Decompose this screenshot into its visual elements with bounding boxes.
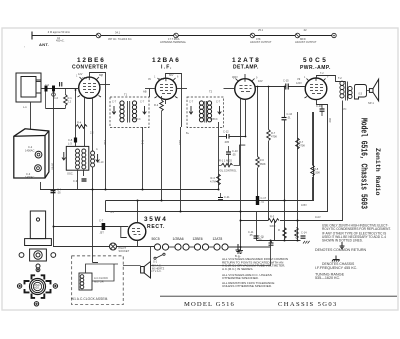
filament circles 50C5: [154, 244, 160, 250]
svg-text:PWR.-AMP.: PWR.-AMP.: [300, 65, 331, 71]
svg-text:MODEL G516: MODEL G516: [184, 301, 235, 308]
wire loop to converter grid: [41, 88, 79, 90]
buzzer wire: [123, 241, 271, 266]
resistor R6: [256, 157, 260, 168]
bus line 2: [106, 112, 314, 201]
svg-text:10V: 10V: [258, 79, 263, 83]
wire tube pins down: [84, 98, 86, 147]
svg-text:B+3: B+3: [178, 140, 182, 145]
wire from interlock down: [53, 92, 55, 247]
svg-text:.02: .02: [261, 199, 265, 203]
svg-text:C-10: C-10: [98, 161, 104, 164]
power interlock box C2/C3: [14, 129, 49, 178]
svg-text:ADJUST OUTPUT: ADJUST OUTPUT: [295, 40, 317, 44]
capacitor C21 on bus: [218, 193, 223, 200]
svg-text:C-21: C-21: [224, 195, 230, 199]
tube V1 12BE6 converter: [79, 76, 100, 98]
svg-text:C-15: C-15: [283, 79, 289, 83]
svg-text:DENOTES COMMON RETURN: DENOTES COMMON RETURN: [315, 248, 367, 252]
svg-text:C-T: C-T: [112, 101, 117, 104]
wire x142.6: [142, 127, 144, 190]
svg-text:C-2: C-2: [28, 145, 33, 149]
svg-text:470K: 470K: [299, 144, 305, 148]
capacitor C19: [269, 241, 274, 246]
svg-text:0.5: 0.5: [359, 92, 363, 96]
svg-text:80V: 80V: [169, 74, 174, 77]
svg-text:C-T: C-T: [140, 101, 145, 104]
svg-text:50C5: 50C5: [152, 237, 160, 241]
filter resistors: [283, 228, 287, 239]
svg-text:455KC: 455KC: [210, 118, 218, 121]
svg-text:.05: .05: [249, 233, 253, 237]
svg-text:.05: .05: [232, 152, 236, 156]
filament circles 12BE6: [194, 244, 200, 250]
svg-text:L-3: L-3: [68, 142, 72, 146]
svg-text:12AT8: 12AT8: [232, 57, 260, 64]
svg-text:150K: 150K: [314, 171, 320, 175]
B- common return symbol: [236, 244, 241, 253]
wire 50C5 plate to output transformer: [317, 76, 346, 105]
capacitor C4: [51, 191, 56, 193]
alignment point circle 1: [96, 33, 101, 38]
wire R8 vertical: [297, 112, 299, 241]
chassis symbol legend: [332, 256, 340, 262]
resistor R5: [267, 130, 271, 141]
capacitor C5a trimmer: [60, 82, 62, 87]
svg-text:R-1: R-1: [68, 96, 73, 100]
filter node wires: [257, 212, 275, 241]
svg-text:C-6: C-6: [54, 97, 59, 100]
alignment point circle 2: [174, 33, 179, 38]
resistor R4: [76, 125, 87, 129]
resistor R4b: [217, 174, 221, 185]
svg-text:35W4: 35W4: [144, 216, 167, 223]
svg-text:C-5: C-5: [45, 84, 50, 87]
svg-text:B+: B+: [186, 132, 190, 135]
svg-text:2.2: 2.2: [90, 131, 94, 135]
wire 35W4 plate to bus: [137, 201, 139, 223]
loop antenna L1: [16, 73, 41, 102]
filament string wire: [53, 246, 110, 248]
svg-text:34.1: 34.1: [115, 31, 121, 35]
resistor R7 470K: [296, 138, 300, 149]
svg-text:ANTENNA TERMINAL: ANTENNA TERMINAL: [160, 40, 187, 44]
clock dashed box: [72, 256, 124, 305]
svg-text:SP-1: SP-1: [368, 101, 374, 105]
svg-text:I.F.FREQUENCY 455 KC.: I.F.FREQUENCY 455 KC.: [315, 266, 357, 270]
svg-text:120V: 120V: [296, 82, 302, 85]
tube pin stubs 12BE6: [78, 77, 326, 98]
svg-text:ANT.: ANT.: [39, 42, 49, 47]
alignment point circle 4: [295, 33, 300, 38]
tube V3 12AT8 det-amp: [235, 79, 263, 100]
switch S1: [156, 255, 163, 259]
wire T2 to 12AT8: [224, 88, 235, 90]
svg-text:AB: AB: [143, 90, 147, 94]
svg-text:C-13: C-13: [232, 149, 238, 153]
alignment point circle 3: [250, 33, 255, 38]
svg-text:1400AC.: 1400AC.: [25, 175, 35, 179]
wire x161.4: [161, 120, 163, 201]
clock motor: [79, 273, 92, 290]
bus line 1: [95, 189, 219, 191]
filament circles 12AT8: [214, 244, 220, 250]
bottom rule: [160, 295, 397, 297]
line end terminal: [332, 33, 336, 37]
svg-text:CHASSIS 5G03: CHASSIS 5G03: [278, 301, 338, 308]
oscillator coil L3: [62, 146, 89, 170]
socket C-2: [35, 151, 42, 158]
svg-text:R-1 1 MEG: R-1 1 MEG: [219, 159, 232, 163]
svg-text:ROLYTIC CONDENSERS FOR REPLACE: ROLYTIC CONDENSERS FOR REPLACEMENT.: [322, 227, 391, 231]
svg-text:R-7: R-7: [299, 140, 304, 144]
svg-text:.01: .01: [287, 115, 291, 119]
svg-text:C-8: C-8: [68, 138, 73, 142]
resistor is drawn below: [312, 112, 314, 201]
svg-text:457 4C. 7CuFF4 KC.: 457 4C. 7CuFF4 KC.: [108, 37, 132, 41]
svg-text:ADJUST OUTPUT: ADJUST OUTPUT: [250, 40, 272, 44]
svg-text:R-4: R-4: [77, 121, 82, 125]
tube socket bottom view: [17, 268, 57, 306]
vertical wires from IF area down to buses: [143, 120, 181, 212]
wire 50C5 cathode: [317, 100, 328, 105]
antenna terminal bar: [32, 32, 334, 40]
svg-text:R: R: [278, 228, 280, 232]
svg-text:SOCKET: SOCKET: [119, 249, 130, 253]
svg-text:A.C.CLOCK: A.C.CLOCK: [94, 276, 108, 280]
heater bracket: [121, 227, 127, 238]
capacitor C16: [282, 118, 287, 120]
svg-text:S-1: S-1: [110, 211, 115, 214]
svg-text:Zenith Radio: Zenith Radio: [374, 148, 381, 196]
svg-text:DET.AMP.: DET.AMP.: [233, 65, 259, 71]
svg-text:OSC.: OSC.: [67, 172, 74, 176]
svg-text:RECT.: RECT.: [147, 224, 165, 230]
svg-text:.005: .005: [224, 140, 230, 144]
IF transformer T2: [187, 90, 224, 128]
svg-text:SRV: SRV: [82, 76, 88, 80]
coupling capacitor C15 to 50C5 grid: [286, 84, 288, 90]
middle notes: [222, 257, 288, 288]
common return symbol legend: [340, 242, 345, 249]
wire long vertical x105: [105, 97, 107, 190]
svg-text:112V: 112V: [315, 216, 321, 219]
resistor R2 cathode: [160, 100, 164, 111]
svg-text:S-1: S-1: [153, 260, 158, 264]
svg-text:C-17: C-17: [261, 196, 267, 200]
capacitor C13: [226, 146, 231, 162]
wire grid top from 12BE6: [76, 73, 111, 190]
socket C-3: [35, 165, 42, 172]
svg-text:CONVERTER: CONVERTER: [72, 65, 108, 71]
svg-text:R-2: R-2: [154, 103, 159, 107]
svg-text:T-2: T-2: [338, 76, 342, 80]
capacitor C7 black: [102, 223, 106, 230]
scattered tiny component labels: [45, 72, 347, 273]
svg-text:C-T: C-T: [216, 101, 221, 104]
wire horizontal lower-left: [40, 189, 95, 191]
svg-text:0V: 0V: [148, 78, 151, 81]
svg-text:12BE6: 12BE6: [193, 237, 203, 241]
svg-text:12BA6: 12BA6: [152, 57, 180, 64]
svg-text:R-6: R-6: [260, 158, 265, 162]
chassis hatch at filter line end: [303, 241, 310, 244]
buzzer speaker: [141, 262, 151, 279]
svg-text:450: 450: [328, 118, 332, 123]
svg-text:C-20: C-20: [316, 104, 322, 108]
svg-text:ADJ.: ADJ.: [34, 286, 40, 290]
svg-text:C-12: C-12: [223, 130, 229, 134]
svg-text:450+C.: 450+C.: [56, 39, 65, 43]
svg-text:L-1: L-1: [23, 105, 27, 109]
speaker SP-1: [367, 79, 379, 105]
svg-text:W1 A.C.CLOCK ASSEM.: W1 A.C.CLOCK ASSEM.: [71, 297, 108, 301]
svg-text:25.1: 25.1: [258, 28, 264, 32]
svg-text:12V: 12V: [78, 73, 83, 76]
capacitor C6 black: [52, 86, 55, 92]
svg-text:R-4: R-4: [211, 176, 216, 180]
svg-text:117 V.A.C.: 117 V.A.C.: [150, 270, 162, 273]
svg-text:R-3: R-3: [270, 215, 275, 219]
coupling capacitor C12: [219, 134, 246, 139]
svg-text:R-8: R-8: [314, 167, 319, 171]
det/AF section wires: [219, 74, 306, 247]
svg-text:.02: .02: [303, 28, 307, 32]
resistor R1 vertical: [64, 95, 68, 106]
wire 12BA6 couplings: [145, 74, 187, 128]
wire x180.2: [180, 127, 182, 212]
filament circles 12BA6: [175, 244, 181, 250]
resistor R3 on bus4: [268, 219, 279, 223]
wire 12AT8 plate right: [255, 86, 305, 88]
voice coil blob: [355, 85, 367, 100]
resistor R8 150K: [311, 165, 315, 176]
svg-text:1/2BA6: 1/2BA6: [173, 237, 184, 241]
svg-text:VC: VC: [343, 108, 347, 111]
dial shaft hardware: [25, 211, 52, 246]
lower grid return wire: [46, 108, 66, 110]
wire loop to interlock: [30, 102, 32, 129]
svg-text:4.7M: 4.7M: [210, 179, 216, 183]
capacitor C5 black: [45, 86, 48, 92]
svg-text:50C5: 50C5: [303, 57, 327, 64]
capacitor C9: [82, 179, 87, 181]
wires below osc: [78, 167, 99, 263]
svg-text:A.C.(R.C.) IN SERIES.: A.C.(R.C.) IN SERIES.: [222, 267, 253, 271]
svg-text:Model G516, Chassis 5G03: Model G516, Chassis 5G03: [359, 118, 369, 209]
svg-text:VOL.CONTROL: VOL.CONTROL: [218, 169, 237, 173]
right notes: [322, 224, 391, 243]
svg-text:470K: 470K: [271, 135, 277, 139]
svg-text:UNLESS OTHERWISE SPECIFIED.: UNLESS OTHERWISE SPECIFIED.: [222, 284, 272, 288]
oscillator winding right: [91, 151, 100, 167]
shaft socket assembly: [19, 249, 56, 268]
capacitor C17 black: [256, 196, 259, 205]
capacitor C11: [254, 236, 259, 238]
tube V4 50C5 power amp: [297, 77, 327, 100]
svg-text:100V: 100V: [232, 76, 238, 79]
svg-text:535—1620 KC.: 535—1620 KC.: [315, 276, 340, 280]
clock wires: [86, 264, 119, 281]
output transformer T3: [338, 76, 352, 101]
wire AC into rectifier: [53, 226, 128, 228]
svg-text:C-T: C-T: [189, 101, 194, 104]
wire tube top to T1: [90, 73, 106, 98]
svg-text:T-2: T-2: [320, 72, 324, 75]
svg-text:14B: 14B: [103, 140, 107, 145]
capacitor C20: [320, 104, 325, 116]
svg-text:.3 M approx 50 ohm: .3 M approx 50 ohm: [47, 30, 70, 34]
svg-text:C-14: C-14: [301, 231, 307, 235]
svg-text:455KC: 455KC: [133, 118, 141, 121]
B- return on filament line: [240, 246, 242, 248]
svg-text:1400AC.: 1400AC.: [25, 148, 35, 152]
svg-text:C-16: C-16: [287, 112, 293, 116]
svg-text:2.2: 2.2: [68, 99, 72, 103]
svg-text:12BE6: 12BE6: [77, 57, 105, 64]
svg-text:12AT8: 12AT8: [213, 237, 223, 241]
bus line 3: [106, 104, 328, 212]
svg-text:V9: V9: [297, 77, 301, 81]
svg-text:R-2: R-2: [141, 140, 145, 145]
pilot lamp: [110, 243, 117, 250]
wire between filaments: [168, 246, 270, 248]
capacitor C14: [301, 236, 306, 238]
svg-text:J5T: J5T: [100, 231, 105, 235]
capacitor C8 black: [74, 138, 77, 143]
svg-text:C-9: C-9: [73, 179, 78, 183]
tube V5 35W4: [128, 223, 146, 241]
tube V2 12BA6 IF amp: [155, 77, 176, 99]
svg-text:59-90: 59-90: [51, 163, 55, 170]
buzzer feed wire: [150, 247, 152, 262]
svg-text:C-7: C-7: [99, 219, 104, 223]
svg-text:560K: 560K: [260, 162, 266, 166]
volume control R1: [222, 163, 233, 167]
svg-text:105V: 105V: [301, 204, 307, 207]
svg-text:.05: .05: [57, 191, 61, 195]
svg-text:OTHERWISE SPECIFIED.: OTHERWISE SPECIFIED.: [222, 276, 259, 280]
IF transformer T1: [110, 93, 149, 128]
svg-text:I.F.: I.F.: [161, 65, 172, 71]
svg-text:807: 807: [99, 74, 104, 77]
wire tube left down: [76, 89, 80, 121]
svg-text:R-7: R-7: [271, 131, 276, 135]
